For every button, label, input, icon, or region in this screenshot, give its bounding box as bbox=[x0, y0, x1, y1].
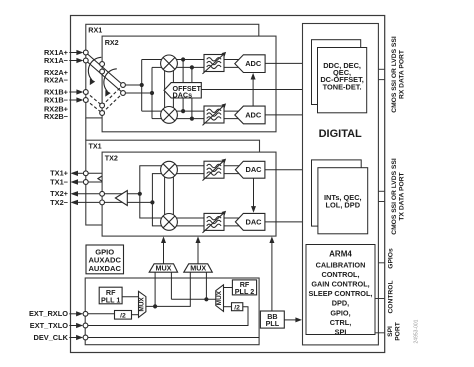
svg-text:AUXDAC: AUXDAC bbox=[88, 264, 121, 273]
wire offset DAC taps bbox=[182, 60, 184, 112]
svg-text:CONTROL,: CONTROL, bbox=[321, 270, 359, 279]
wire TX filter2 to DAC2 bbox=[224, 217, 242, 219]
MUX 2 (LO select) bbox=[184, 264, 213, 273]
svg-text:TX2−: TX2− bbox=[50, 198, 69, 207]
wire EXT_TXLO to /2 TX bbox=[86, 307, 249, 326]
ADC U2 bbox=[235, 106, 265, 124]
wire TX1 pin pair bbox=[86, 173, 102, 182]
svg-text:ADC: ADC bbox=[245, 59, 262, 68]
wire TX synth to mux row bbox=[171, 298, 215, 300]
mixer RX I bbox=[161, 55, 178, 72]
MUX TX synth (vertical, mirrored) bbox=[216, 285, 224, 312]
RX DSP stack (back card) bbox=[312, 40, 361, 105]
RX DSP stack (front card) DDC DEC QEC bbox=[318, 48, 367, 113]
svg-text:DAC: DAC bbox=[245, 217, 262, 226]
node SPI stub bbox=[375, 332, 385, 334]
mixer TX I bbox=[161, 161, 178, 178]
svg-text:RX DATA PORT: RX DATA PORT bbox=[399, 49, 406, 99]
wire TX2- to Q node bbox=[102, 201, 152, 203]
GPIO AUXADC AUXDAC block bbox=[86, 245, 124, 274]
svg-text:RX1B−: RX1B− bbox=[44, 95, 69, 104]
svg-text:RX2B−: RX2B− bbox=[44, 112, 69, 121]
TX2 wiring bbox=[102, 194, 152, 203]
svg-text:/2: /2 bbox=[120, 312, 126, 319]
divider /2 RX bbox=[115, 311, 132, 320]
mixer RX Q bbox=[161, 107, 178, 124]
wire RX common 1 to junction bbox=[126, 84, 142, 86]
synthesizer block bbox=[85, 278, 259, 345]
pin circles TX1 bbox=[83, 171, 88, 185]
svg-text:TX DATA PORT: TX DATA PORT bbox=[399, 172, 406, 221]
svg-text:SPI: SPI bbox=[335, 328, 347, 337]
port label SPI PORT bbox=[387, 321, 402, 340]
node CONTROL stub bbox=[375, 298, 385, 300]
TX2 block bbox=[102, 152, 276, 236]
wire switch RX1B+ dashed bbox=[86, 92, 102, 106]
wire BB PLL to DIGITAL arrow bbox=[284, 317, 302, 322]
svg-text:PLL: PLL bbox=[266, 319, 280, 328]
RX input switch network bbox=[86, 53, 123, 114]
svg-text:DIGITAL: DIGITAL bbox=[319, 128, 362, 140]
svg-text:TONE-DET.: TONE-DET. bbox=[323, 82, 362, 91]
wire DAC2 input from DIGITAL bbox=[265, 221, 303, 223]
wire mux2 output arrow into TX2 bbox=[196, 236, 201, 263]
svg-text:LOL, DPD: LOL, DPD bbox=[326, 200, 361, 209]
wire BB PLL clock arrow into TX2 bbox=[269, 236, 274, 311]
wire switch RX1A+ solid bbox=[86, 53, 123, 86]
wire switch RX1B- dashed bbox=[86, 100, 102, 113]
svg-text:SLEEP CONTROL,: SLEEP CONTROL, bbox=[309, 289, 373, 298]
svg-text:EXT_TXLO: EXT_TXLO bbox=[30, 321, 68, 330]
svg-text:SPI: SPI bbox=[387, 326, 394, 337]
port label TX data bbox=[391, 158, 406, 235]
right side port stubs bbox=[375, 69, 385, 333]
wire switch RX2B- dashed bbox=[102, 93, 123, 113]
svg-text:GPIO,: GPIO, bbox=[330, 308, 350, 317]
TX DSP stack (back card) bbox=[312, 160, 362, 226]
wire /2 to MUX bbox=[132, 314, 139, 316]
wire EXT_RXLO to /2 bbox=[86, 313, 115, 315]
wire TX2+ to I node bbox=[102, 193, 140, 195]
pin labels RX bbox=[44, 48, 69, 121]
svg-text:TX1−: TX1− bbox=[50, 177, 69, 186]
svg-text:RX1A−: RX1A− bbox=[44, 56, 69, 65]
svg-text:PLL 1: PLL 1 bbox=[101, 295, 120, 304]
svg-text:24953-001: 24953-001 bbox=[414, 319, 420, 343]
wire filter2 to ADC2 bbox=[224, 110, 242, 112]
DAC U3 bbox=[235, 161, 265, 178]
svg-text:PLL 2: PLL 2 bbox=[235, 287, 254, 296]
mixer TX Q bbox=[161, 214, 178, 231]
wire offset DACs to DIGITAL bbox=[201, 89, 302, 91]
wire RX common 2 to junction bbox=[126, 92, 152, 94]
wire ADC1 output bbox=[265, 62, 302, 64]
wire TX I-split vertical bbox=[140, 166, 162, 218]
MUX 1 (LO select) bbox=[149, 264, 177, 273]
DIGITAL block bbox=[303, 24, 379, 345]
switch terminal circles bbox=[83, 50, 125, 115]
RX1 block bbox=[86, 24, 259, 118]
svg-text:MUX: MUX bbox=[190, 264, 206, 273]
filter RX1 (programmable LPF) bbox=[203, 52, 227, 74]
divider /2 TX bbox=[232, 303, 243, 312]
DAC U4 bbox=[235, 213, 265, 230]
wire ADC2-to-ADC1 arrow bbox=[251, 73, 256, 106]
svg-text:RX2A−: RX2A− bbox=[44, 75, 69, 84]
svg-text:GAIN CONTROL,: GAIN CONTROL, bbox=[311, 280, 369, 289]
chip boundary bbox=[71, 16, 385, 353]
svg-text:DACs: DACs bbox=[173, 91, 193, 100]
offset DACs box bbox=[164, 83, 201, 100]
wire TX Q-split vertical bbox=[152, 174, 162, 226]
TX DSP stack (front card) INTs QEC LOL DPD bbox=[318, 168, 368, 234]
svg-text:RX1: RX1 bbox=[88, 26, 102, 35]
wire mux1 inputs bbox=[146, 272, 216, 306]
switch arc arrow 2 bbox=[104, 69, 117, 92]
pin arrows TX (outputs, point left) bbox=[70, 171, 99, 205]
switch arc arrow 1 bbox=[88, 57, 101, 80]
wire switch RX1A- solid bbox=[86, 61, 123, 94]
svg-text:MUX: MUX bbox=[156, 264, 172, 273]
wire DAC1-to-DAC2 arrow bbox=[251, 178, 256, 213]
svg-text:ARM4: ARM4 bbox=[329, 249, 352, 258]
wire mixer2 output pair bbox=[177, 110, 205, 112]
wire DAC1 input from DIGITAL bbox=[265, 169, 303, 171]
svg-text:TX2: TX2 bbox=[105, 154, 118, 163]
svg-text:TX1+: TX1+ bbox=[50, 169, 69, 178]
wire switch RX2B+ dashed bbox=[102, 85, 123, 106]
svg-text:EXT_RXLO: EXT_RXLO bbox=[29, 309, 68, 318]
pin circles EXT_RXLO EXT_TXLO DEV_CLK bbox=[83, 311, 88, 340]
node TX data port stub bbox=[378, 190, 384, 192]
junction dots TX bbox=[138, 192, 155, 205]
wire mux1 output arrow into TX2 bbox=[161, 236, 166, 263]
svg-text:/2: /2 bbox=[234, 304, 240, 311]
ADC U1 bbox=[235, 55, 265, 73]
wire RX1-TX1 left edge connector bbox=[85, 118, 87, 140]
svg-text:DAC: DAC bbox=[245, 165, 262, 174]
wire inter-mixer LO lines bbox=[164, 69, 166, 110]
wire /2 TX to MUX bbox=[224, 306, 232, 308]
ARM4 processor block bbox=[306, 245, 375, 337]
wire TX filter1 to DAC1 bbox=[224, 165, 242, 167]
RF PLL 1 bbox=[99, 287, 122, 304]
wire ADC2 output bbox=[265, 114, 302, 116]
junction dots RX bbox=[140, 57, 194, 120]
wire DEV_CLK bbox=[86, 337, 260, 339]
svg-text:RX2: RX2 bbox=[105, 38, 119, 47]
wire filter1 to ADC1 bbox=[224, 59, 242, 61]
wire mux2 inputs bbox=[146, 272, 190, 306]
wire I-split vertical bbox=[141, 60, 143, 112]
pin labels bottom left bbox=[29, 309, 69, 342]
op-amp TX1 driver (tip) bbox=[98, 171, 110, 186]
node RX data port stub bbox=[378, 68, 384, 70]
pin arrows bottom left bbox=[69, 311, 83, 340]
wire RF PLL1 to MUX bbox=[122, 296, 139, 298]
svg-text:CONTROL: CONTROL bbox=[388, 280, 395, 313]
node GPIOs stub bbox=[378, 262, 384, 264]
wire mixer1 output pair bbox=[177, 59, 205, 61]
pin labels TX bbox=[50, 169, 69, 207]
pin arrows RX1A/RX1B bbox=[69, 50, 83, 103]
svg-text:GPIOs: GPIOs bbox=[388, 248, 395, 269]
wire TX inter-mixer LO lines bbox=[164, 175, 166, 217]
svg-text:PORT: PORT bbox=[395, 321, 402, 340]
svg-text:CALIBRATION: CALIBRATION bbox=[316, 260, 366, 269]
pin circles TX2 bbox=[100, 191, 105, 204]
svg-text:DPD,: DPD, bbox=[332, 299, 349, 308]
junction dots synth bbox=[153, 297, 208, 308]
svg-text:MUX: MUX bbox=[216, 290, 223, 305]
svg-text:TX1: TX1 bbox=[89, 142, 102, 151]
svg-text:CTRL,: CTRL, bbox=[330, 318, 351, 327]
TX1 block bbox=[86, 140, 260, 225]
filter TX1 (programmable LPF) bbox=[203, 159, 227, 181]
port label RX data bbox=[391, 36, 406, 113]
svg-text:MUX: MUX bbox=[139, 297, 146, 312]
RF PLL 2 bbox=[232, 280, 256, 296]
BB PLL bbox=[260, 311, 284, 328]
wire TX mixer1 output pair bbox=[177, 165, 205, 167]
wire Q-split vertical bbox=[151, 67, 153, 118]
svg-text:DEV_CLK: DEV_CLK bbox=[34, 333, 69, 342]
MUX RX synth (vertical) bbox=[139, 291, 146, 317]
wire RF PLL2 to MUX bbox=[224, 287, 233, 289]
filter TX2 (programmable LPF) bbox=[203, 211, 227, 233]
op-amp TX2 driver bbox=[115, 191, 127, 206]
svg-text:ADC: ADC bbox=[245, 111, 262, 120]
wire TX mixer2 output pair bbox=[177, 217, 205, 219]
svg-text:CMOS SSI OR LVDS SSI: CMOS SSI OR LVDS SSI bbox=[391, 158, 398, 235]
svg-text:CMOS SSI OR LVDS SSI: CMOS SSI OR LVDS SSI bbox=[391, 36, 398, 113]
filter RX2 (programmable LPF) bbox=[203, 103, 227, 125]
RX2 block bbox=[102, 36, 276, 132]
